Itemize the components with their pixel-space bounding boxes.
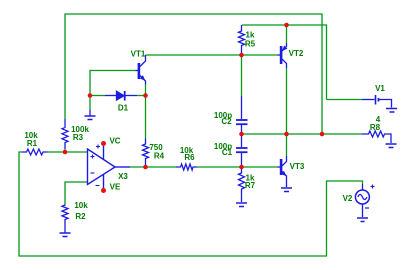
junction node top rail drop — [320, 132, 325, 137]
ground of V1 — [386, 109, 397, 113]
junction node VT2 emitter top — [284, 23, 289, 28]
wire R5 column to C2 — [241, 55, 243, 96]
junction node R5 bottom — [239, 53, 244, 58]
resistor R7 — [239, 167, 245, 202]
junction node C1/R7 — [239, 165, 244, 170]
svg-text:R5: R5 — [245, 40, 256, 49]
ground at D1 anode — [85, 96, 96, 120]
wire R1 node to opamp plus input — [48, 151, 88, 153]
svg-text:D1: D1 — [118, 104, 129, 113]
resistor R5 — [239, 25, 245, 55]
transistor VT3 — [278, 156, 287, 187]
wire V2 loop to R1 — [19, 152, 363, 256]
wire opamp output to R6 — [130, 166, 176, 168]
ground of R8 — [386, 144, 397, 148]
wire R3 bottom stub — [64, 149, 66, 152]
wire VT2 emitter rail y=25 to V1 drop — [242, 25, 327, 100]
wire R6 to VT3 base — [197, 166, 278, 168]
svg-text:V1: V1 — [375, 84, 385, 93]
diode D1 — [105, 91, 137, 101]
ground of V2 — [357, 218, 368, 222]
op-amp X3 — [88, 146, 131, 188]
op-amp VE minus mark — [96, 185, 100, 187]
svg-text:VE: VE — [110, 183, 121, 192]
svg-text:R8: R8 — [370, 123, 381, 132]
wire opamp minus input from R2 — [65, 182, 88, 205]
node VC pin — [101, 141, 106, 146]
svg-text:R7: R7 — [245, 181, 256, 190]
svg-text:1k: 1k — [246, 31, 255, 40]
junction node opamp output — [143, 165, 148, 170]
resistor R6 — [176, 164, 197, 170]
transistor VT1 — [136, 55, 146, 85]
transistor VT2 — [278, 43, 288, 68]
svg-text:C1: C1 — [222, 148, 233, 157]
capacitor C2 — [236, 96, 248, 134]
wire VT2 collector down to mid rail — [286, 68, 288, 134]
wire D1 cathode to emitter node — [137, 95, 146, 97]
wire VT1 collector to VT2 base y=55 — [146, 54, 278, 56]
op-amp minus input mark — [91, 172, 95, 174]
wire top rail from R3 top to right drop — [65, 14, 322, 134]
junction node VT1 emitter — [143, 93, 148, 98]
op-amp plus input mark — [91, 155, 95, 159]
resistor R3 — [62, 119, 68, 149]
junction node R1/R3/opamp — [63, 150, 68, 155]
svg-text:VC: VC — [109, 137, 120, 146]
svg-text:C2: C2 — [221, 117, 232, 126]
V2 plus mark — [371, 185, 375, 189]
resistor R2 — [62, 205, 68, 233]
svg-text:V2: V2 — [343, 194, 353, 203]
wire mid rail y=134 to R8 — [242, 133, 363, 135]
svg-text:VT1: VT1 — [131, 50, 146, 59]
svg-text:R2: R2 — [75, 212, 86, 221]
op-amp VC plus mark — [96, 145, 100, 149]
wire VT2 emitter stub — [286, 25, 288, 43]
wire D1 anode stub — [90, 95, 105, 97]
AC source V2 — [355, 184, 369, 217]
ground of VT3 — [281, 188, 292, 192]
wire mid rail to VT3 collector — [286, 134, 288, 156]
svg-text:R4: R4 — [154, 152, 165, 161]
capacitor C1 — [236, 134, 248, 167]
svg-text:VT2: VT2 — [289, 49, 304, 58]
ground of R7 — [236, 203, 247, 207]
wire emitter node down to R4 — [145, 85, 147, 139]
ground of R2 — [60, 233, 71, 237]
resistor R8 — [362, 131, 391, 143]
svg-text:R6: R6 — [184, 153, 195, 162]
wire V1 feed y=99.5 — [327, 99, 363, 101]
junction node D1 anode — [88, 93, 93, 98]
junction node VT2 collector rail — [284, 132, 289, 137]
wire VT1 base down to D1 node — [90, 71, 136, 96]
svg-text:VT3: VT3 — [290, 162, 305, 171]
svg-text:X3: X3 — [118, 172, 128, 181]
resistor R1 — [22, 149, 48, 155]
junction node C2/C1 — [239, 132, 244, 137]
V2 minus mark — [365, 207, 369, 209]
battery V1 — [362, 95, 392, 108]
node VE pin — [101, 188, 106, 193]
svg-text:R1: R1 — [27, 139, 38, 148]
svg-text:R3: R3 — [73, 133, 84, 142]
svg-text:10k: 10k — [74, 201, 88, 210]
resistor R4 — [143, 139, 149, 168]
